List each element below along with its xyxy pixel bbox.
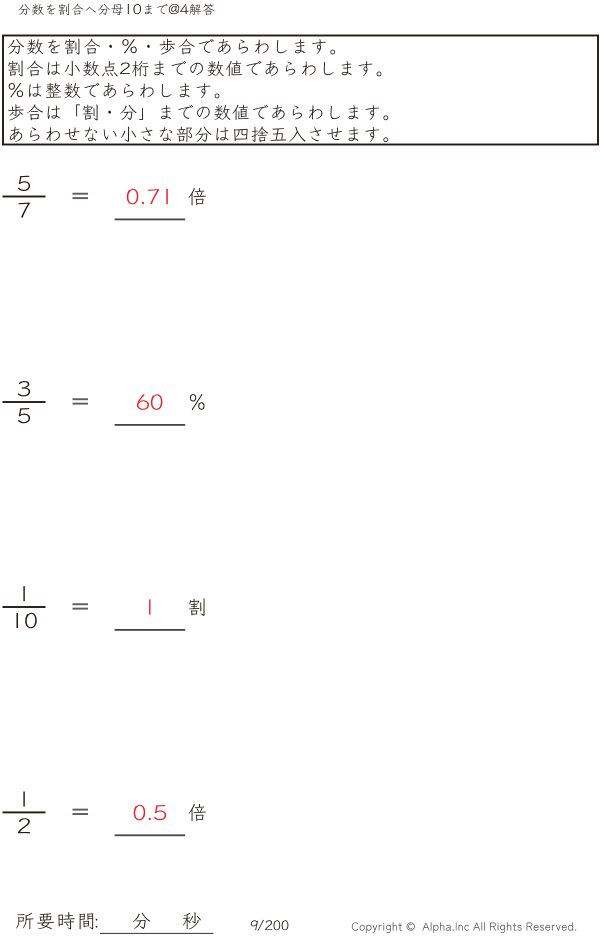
problem 4: 1/2 = 0.5 倍 (23, 792, 24, 807)
title (19, 4, 215, 16)
page number (251, 920, 289, 931)
copyright (352, 922, 576, 933)
instruction box border (3, 36, 598, 145)
problem 3: 1/10 = 1 割 (23, 586, 24, 601)
footer time (16, 912, 201, 929)
problem 2: 3/5 = 60 % (18, 381, 30, 396)
problem 1: 5/7 = 0.71 倍 (18, 176, 30, 191)
instruction text (8, 39, 335, 55)
